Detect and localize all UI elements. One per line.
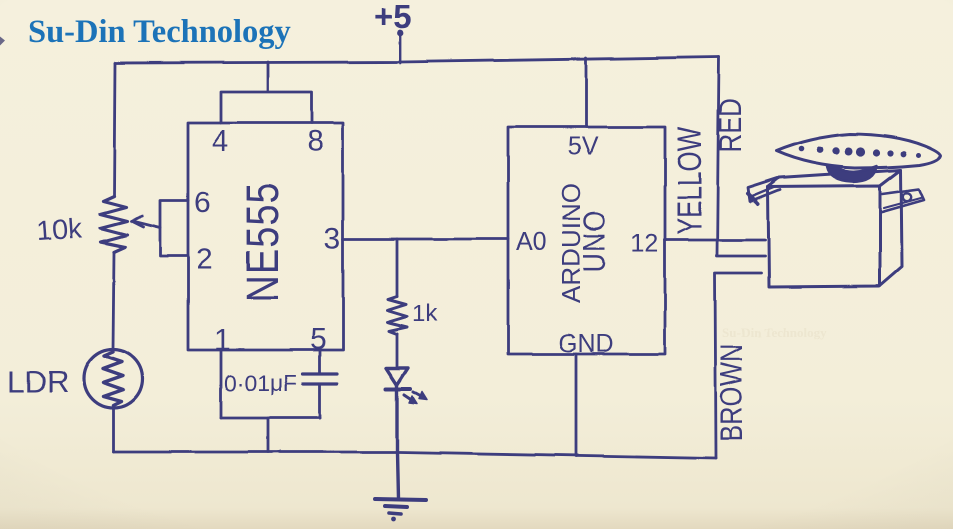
svg-text:6: 6: [194, 186, 211, 219]
label 0.01uF: [224, 370, 297, 396]
svg-text:3: 3: [324, 222, 341, 255]
wire 1k to LED: [396, 334, 399, 366]
watermark ghost: [722, 325, 828, 340]
label 12 pin: [631, 230, 659, 258]
wire pin12 to servo (yellow signal): [665, 239, 765, 242]
svg-text:4: 4: [212, 125, 229, 158]
IC U1 NE555 body: [188, 123, 343, 350]
wire cap bottom stem: [319, 384, 322, 418]
servo top face: [768, 170, 901, 187]
LDR photoresistor: [84, 350, 143, 409]
wire pin4/pin8 bracket to +5 rail: [221, 62, 312, 123]
servo front face: [768, 186, 880, 287]
label A0: [516, 228, 547, 256]
wire branch to 1k resistor: [396, 239, 399, 296]
wire center tap to bottom rail: [267, 418, 270, 452]
svg-text:NE555: NE555: [237, 181, 288, 302]
svg-text:8: 8: [307, 125, 324, 158]
label UNO: [578, 210, 612, 273]
label GND: [558, 330, 614, 358]
servo horn holes: [798, 146, 921, 157]
label LDR: [7, 364, 69, 399]
+5 supply label: [374, 0, 412, 36]
wire pin3 to A0: [343, 238, 508, 241]
wire left vertical (top section): [114, 63, 115, 196]
capacitor C1 0.01uF network: pin1 stem: [220, 350, 223, 418]
label 1k: [412, 300, 438, 327]
wire top rail: [115, 57, 719, 63]
pin 2 label: [196, 243, 213, 276]
svg-text:1k: 1k: [412, 300, 438, 327]
wire arduino GND stem to bottom rail: [575, 354, 578, 456]
wire left vertical (mid section): [113, 252, 114, 350]
svg-text:5V: 5V: [568, 132, 599, 160]
wire pot bracket: [160, 200, 188, 256]
title Su-Din Technology: [28, 14, 291, 50]
pin 6 label: [194, 186, 211, 219]
wire LED to bottom rail and ground stem: [397, 385, 398, 499]
label ARDUINO: [556, 183, 586, 303]
resistor 1k: [387, 296, 407, 334]
label RED: [714, 98, 749, 153]
svg-text:2: 2: [196, 243, 213, 276]
svg-text:+5: +5: [374, 0, 412, 35]
svg-text:GND: GND: [558, 330, 614, 358]
wire brown: servo to bottom rail corner: [715, 273, 761, 458]
IC U2 Arduino UNO body: [508, 127, 665, 354]
servo motor M1: [748, 134, 941, 287]
svg-text:YELLOW: YELLOW: [672, 126, 709, 235]
resistor 10k (potentiometer body): [100, 196, 127, 252]
svg-text:10k: 10k: [36, 212, 84, 246]
pin 1 label: [214, 324, 231, 357]
potentiometer wiper arrow: [131, 216, 160, 228]
label 10k: [36, 212, 84, 246]
pin 8 label: [307, 125, 324, 158]
label BROWN: [715, 344, 750, 442]
paper edge mark left: [0, 36, 5, 45]
wire cap bottom connector: [221, 417, 320, 420]
svg-text:RED: RED: [714, 98, 749, 153]
servo right mounting tab: [882, 189, 924, 212]
wire arduino 5V stem to top rail: [585, 58, 588, 127]
wire bottom rail: [113, 452, 716, 458]
label NE555: [237, 181, 288, 302]
servo horn: [776, 134, 941, 168]
pin 4 label: [212, 125, 229, 158]
LED D1: [386, 368, 427, 404]
svg-text:A0: A0: [516, 228, 547, 256]
ground symbol: [375, 499, 426, 514]
servo right face: [880, 170, 902, 286]
svg-text:LDR: LDR: [7, 364, 69, 399]
pin 5 label: [310, 323, 327, 356]
svg-text:12: 12: [631, 230, 659, 258]
svg-text:UNO: UNO: [578, 210, 612, 273]
servo left mounting tab: [748, 178, 780, 202]
label 5V: [568, 132, 599, 160]
wire red supply: top rail corner down: [717, 57, 765, 256]
wire +5 stem: [399, 35, 402, 63]
svg-text:Su-Din Technology: Su-Din Technology: [28, 14, 291, 50]
svg-text:Su-Din Technology: Su-Din Technology: [722, 325, 828, 340]
svg-text:0·01μF: 0·01μF: [224, 370, 297, 396]
label YELLOW: [672, 126, 709, 235]
svg-text:5: 5: [310, 323, 327, 356]
pin 3 label: [324, 222, 341, 255]
svg-text:BROWN: BROWN: [715, 344, 750, 442]
wire pin5 stem: [319, 350, 322, 373]
wire left vertical (bottom section): [112, 408, 115, 452]
capacitor C1 plates: [303, 374, 337, 384]
servo shaft collar: [827, 166, 877, 182]
